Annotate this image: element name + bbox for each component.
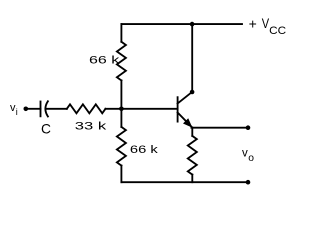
node: base junction dot <box>119 107 124 112</box>
svg-text:o: o <box>248 153 254 164</box>
transistor Q1 collector lead <box>178 92 192 104</box>
node: collector connection dot <box>190 90 195 95</box>
svg-text:66 k: 66 k <box>130 144 158 156</box>
transistor Q1 emitter arrowhead <box>184 119 192 127</box>
node: collector junction dot on VCC rail <box>190 22 195 27</box>
svg-text:66 k: 66 k <box>89 54 120 66</box>
transistor Q1 base bar <box>177 97 179 121</box>
wire: R3 to transistor base through node <box>105 108 177 110</box>
transistor Q1 emitter lead <box>178 113 192 127</box>
terminal: output dot <box>246 125 251 130</box>
resistor R3 33k (series input) <box>67 104 106 113</box>
wire: collector to VCC rail <box>191 24 193 92</box>
wire: input terminal to capacitor <box>28 108 41 110</box>
svg-text:C: C <box>41 121 51 136</box>
terminal: bottom right dot <box>246 180 251 185</box>
wire: emitter down to R4 <box>191 128 193 136</box>
svg-text:v: v <box>242 147 248 159</box>
wire: left vertical from top rail to R1 <box>120 24 122 42</box>
capacitor C left plate <box>40 102 42 117</box>
capacitor C curved plate <box>45 101 48 116</box>
svg-text:CC: CC <box>269 25 286 37</box>
wire: R4 bottom to ground rail <box>191 175 193 183</box>
resistor R1 66k (upper bias) <box>117 42 126 81</box>
svg-text:+: + <box>249 15 257 31</box>
wire: bottom rail <box>121 181 248 183</box>
resistor R4 emitter resistor <box>188 136 197 175</box>
wire: R1 bottom to base node <box>120 80 122 127</box>
wire: +VCC top rail <box>121 23 242 25</box>
svg-text:33 k: 33 k <box>75 120 107 132</box>
wire: emitter to output terminal <box>191 127 248 129</box>
wire: capacitor to R3 <box>45 108 66 110</box>
terminal: input dot <box>24 107 29 112</box>
svg-text:i: i <box>16 107 18 117</box>
wire: R2 bottom to ground rail <box>120 166 122 183</box>
resistor R2 66k (lower bias) <box>117 127 126 166</box>
